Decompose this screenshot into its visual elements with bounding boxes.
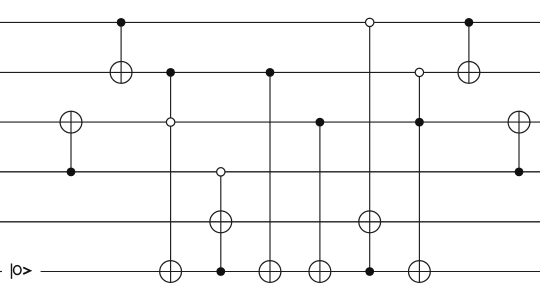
wire column 6 vertical xyxy=(319,122,321,282)
open control col7 q0 xyxy=(366,18,374,26)
control dot col6 q2 xyxy=(316,118,325,127)
control dot col4 q5 xyxy=(216,267,225,276)
CNOT target X6 col6 q5 xyxy=(309,261,331,283)
node label ket zero bar xyxy=(11,264,13,279)
CNOT target X9 col9 q1 xyxy=(458,62,480,84)
wire column 2 vertical xyxy=(120,22,122,83)
control dot col2 q0 xyxy=(117,18,126,27)
CNOT target X4 col4 q4 xyxy=(210,211,232,233)
open control col3 q2 xyxy=(166,118,174,126)
open control col8 q1 xyxy=(415,68,423,76)
open control col4 q3 xyxy=(217,168,225,176)
CNOT target X5 col5 q5 xyxy=(259,261,281,283)
control dot col9 q0 xyxy=(465,18,474,27)
wire column 1 vertical xyxy=(70,111,72,172)
wire q0 xyxy=(0,21,540,23)
wire stub left edge xyxy=(0,271,2,273)
wire column 7 vertical xyxy=(369,22,371,271)
wire column 10 vertical xyxy=(518,111,520,172)
CNOT target X2 col2 q1 xyxy=(110,62,132,84)
CNOT target X7 col7 q4 xyxy=(359,211,381,233)
wire column 3 vertical xyxy=(170,72,172,282)
CNOT target X10 col10 q2 xyxy=(508,111,530,133)
node label ket zero digit 0 xyxy=(14,266,22,275)
control dot col3 q1 xyxy=(166,68,175,77)
wire column 5 vertical xyxy=(269,72,271,282)
wire q3 xyxy=(0,171,540,173)
control dot col7 q5 xyxy=(365,267,374,276)
CNOT target X1 col1 q2 xyxy=(60,111,82,133)
wire q2 xyxy=(0,121,540,123)
wire q5 ancilla xyxy=(41,271,540,273)
CNOT target X3 col3 q5 xyxy=(160,261,182,283)
control dot col1 q3 xyxy=(67,167,76,176)
control dot col10 q3 xyxy=(515,167,524,176)
wire q1 xyxy=(0,71,540,73)
wire q4 xyxy=(0,221,540,223)
node label ket zero bracket xyxy=(23,267,30,274)
control dot col8 q2 xyxy=(415,118,424,127)
wire column 4 vertical xyxy=(220,172,222,272)
wire column 8 vertical xyxy=(418,72,420,282)
CNOT target X8 col8 q5 xyxy=(409,261,431,283)
control dot col5 q1 xyxy=(266,68,275,77)
wire column 9 vertical xyxy=(468,22,470,83)
